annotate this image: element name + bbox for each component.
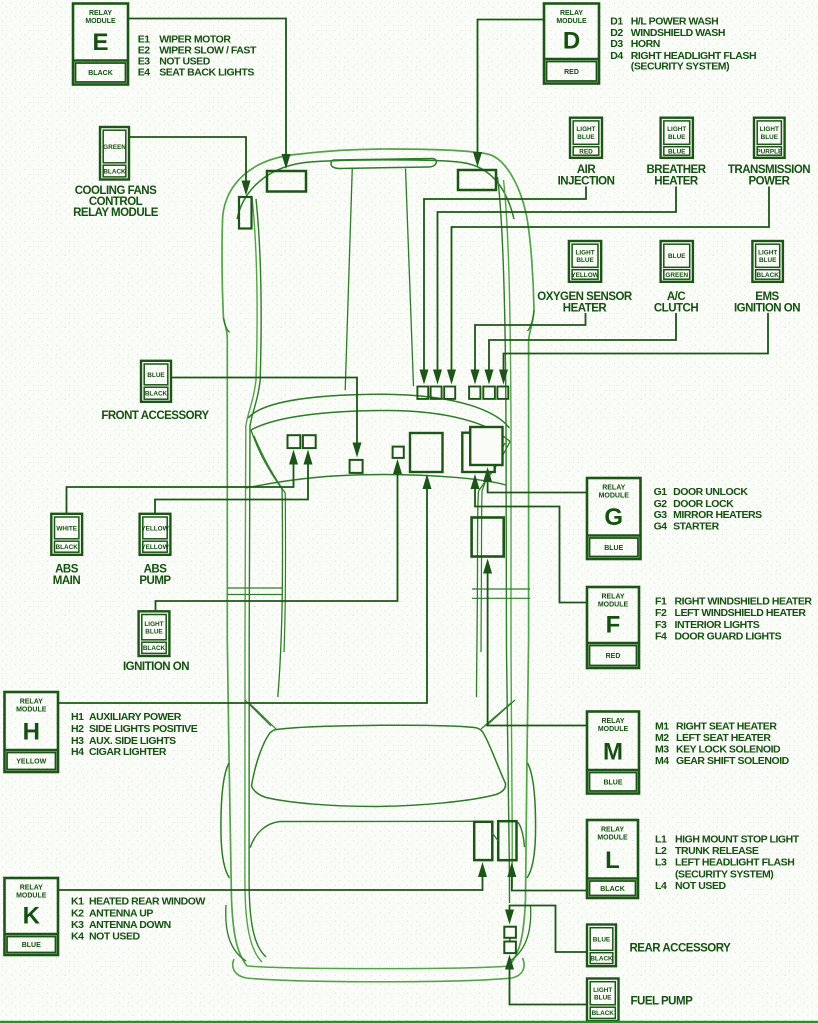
svg-text:RELAY: RELAY	[560, 10, 583, 17]
relay module L	[587, 820, 638, 898]
svg-text:G3: G3	[654, 509, 668, 521]
svg-text:F: F	[606, 612, 621, 639]
svg-text:MODULE: MODULE	[598, 602, 629, 609]
svg-text:E4: E4	[138, 67, 151, 79]
svg-text:IGNITION ON: IGNITION ON	[123, 661, 189, 673]
svg-text:RED: RED	[606, 653, 621, 660]
svg-text:RELAY MODULE: RELAY MODULE	[73, 207, 159, 219]
svg-text:H: H	[23, 719, 40, 746]
svg-text:LIGHT: LIGHT	[667, 126, 686, 133]
svg-text:BLACK: BLACK	[88, 70, 113, 77]
svg-text:BLUE: BLUE	[761, 134, 779, 141]
fuse abs main (white/black)	[51, 514, 82, 555]
svg-text:ABS: ABS	[55, 563, 79, 575]
label list E1-E4	[138, 34, 257, 79]
fuse ac clutch (blue/green)	[661, 241, 693, 282]
trunk right box	[498, 821, 516, 860]
label list H1-H4	[71, 711, 198, 758]
wire abs main	[67, 450, 299, 514]
label A/C CLUTCH	[654, 291, 698, 315]
svg-text:SEAT BACK LIGHTS: SEAT BACK LIGHTS	[159, 67, 254, 79]
svg-text:K2: K2	[71, 908, 84, 920]
svg-text:RED: RED	[579, 148, 593, 155]
label list D1-D4	[610, 16, 756, 73]
svg-text:BLUE: BLUE	[759, 257, 777, 264]
abs pair squares	[288, 435, 316, 448]
svg-text:HEATER: HEATER	[654, 176, 699, 188]
svg-text:HEATER: HEATER	[563, 303, 608, 315]
fuse air injection (light blue/red)	[570, 118, 602, 158]
svg-text:GREEN: GREEN	[103, 144, 126, 151]
svg-text:M1: M1	[655, 720, 669, 732]
svg-text:CIGAR LIGHTER: CIGAR LIGHTER	[89, 746, 167, 758]
svg-text:M4: M4	[655, 755, 669, 767]
svg-text:E: E	[92, 29, 108, 56]
svg-text:K1: K1	[71, 896, 84, 908]
svg-text:INJECTION: INJECTION	[558, 176, 615, 188]
svg-text:DOOR UNLOCK: DOOR UNLOCK	[673, 486, 748, 498]
svg-text:BLUE: BLUE	[576, 257, 594, 264]
label list G1-G4	[654, 486, 763, 532]
svg-text:LIGHT: LIGHT	[576, 126, 595, 133]
svg-text:FRONT ACCESSORY: FRONT ACCESSORY	[101, 410, 209, 422]
svg-text:RED: RED	[564, 69, 579, 76]
label FUEL PUMP	[631, 995, 694, 1007]
fuse ignition on (light blue/black)	[139, 611, 170, 656]
wire E to left cowl box	[128, 19, 291, 170]
fuse front accessory (blue/black)	[141, 361, 171, 402]
svg-text:PURPLE: PURPLE	[756, 148, 783, 155]
svg-text:HORN: HORN	[631, 38, 660, 50]
wire F module	[471, 474, 588, 603]
svg-text:RIGHT SEAT HEATER: RIGHT SEAT HEATER	[676, 720, 777, 732]
svg-text:BLUE: BLUE	[668, 134, 686, 141]
svg-text:LIGHT: LIGHT	[144, 621, 163, 628]
windshield-heat module square	[472, 518, 504, 557]
wire oxygen sensor	[471, 313, 586, 385]
label IGNITION ON	[123, 661, 189, 673]
label FRONT ACCESSORY	[101, 410, 209, 422]
svg-text:DOOR LOCK: DOOR LOCK	[673, 498, 734, 510]
wire ignition on	[156, 459, 403, 611]
svg-text:BLUE: BLUE	[593, 936, 611, 943]
svg-text:TRANSMISSION: TRANSMISSION	[728, 164, 810, 176]
svg-text:H2: H2	[71, 723, 84, 735]
svg-text:YELLOW: YELLOW	[141, 544, 169, 551]
svg-text:D1: D1	[610, 16, 623, 28]
svg-text:ANTENNA UP: ANTENNA UP	[89, 908, 153, 920]
svg-text:REAR ACCESSORY: REAR ACCESSORY	[630, 943, 732, 955]
car body outline	[221, 149, 536, 966]
svg-text:BLUE: BLUE	[594, 994, 612, 1001]
svg-text:POWER: POWER	[749, 176, 791, 188]
svg-text:BLUE: BLUE	[604, 545, 623, 552]
svg-text:AUXILIARY POWER: AUXILIARY POWER	[89, 711, 182, 723]
svg-text:F1: F1	[655, 596, 667, 608]
svg-text:MODULE: MODULE	[597, 835, 628, 842]
left fender box	[239, 197, 252, 229]
wire L module	[507, 862, 587, 891]
svg-text:BLACK: BLACK	[600, 886, 625, 893]
label REAR ACCESSORY	[630, 943, 732, 955]
svg-text:MODULE: MODULE	[85, 18, 116, 25]
wire breather heater	[433, 187, 676, 385]
svg-text:ANTENNA DOWN: ANTENNA DOWN	[89, 919, 171, 931]
relay module E	[73, 4, 128, 85]
wire front accessory	[171, 378, 362, 458]
svg-text:BLUE: BLUE	[145, 628, 163, 635]
svg-text:DOOR GUARD LIGHTS: DOOR GUARD LIGHTS	[675, 631, 782, 643]
svg-text:NOT USED: NOT USED	[89, 930, 141, 942]
rear small square bottom	[504, 942, 516, 954]
svg-text:L3: L3	[655, 857, 667, 869]
svg-text:WHITE: WHITE	[56, 525, 77, 532]
svg-text:H4: H4	[71, 746, 84, 758]
aux power module square	[410, 433, 443, 472]
svg-text:BLACK: BLACK	[143, 645, 166, 652]
svg-text:AIR: AIR	[577, 164, 597, 176]
svg-text:A/C: A/C	[667, 291, 686, 303]
svg-text:G4: G4	[654, 521, 668, 533]
svg-text:BLACK: BLACK	[592, 1010, 615, 1017]
svg-text:LIGHT: LIGHT	[575, 249, 594, 256]
svg-text:RELAY: RELAY	[89, 10, 112, 17]
svg-text:LEFT WINDSHIELD HEATER: LEFT WINDSHIELD HEATER	[675, 607, 807, 619]
label BREATHER HEATER	[646, 164, 706, 188]
relay module H	[5, 692, 59, 772]
svg-text:LEFT HEADLIGHT FLASH: LEFT HEADLIGHT FLASH	[675, 857, 794, 869]
fuse cooling fans (green/black)	[100, 127, 129, 180]
wire G module	[483, 467, 587, 493]
relay module G	[587, 478, 641, 559]
svg-text:BLACK: BLACK	[56, 544, 79, 551]
svg-text:ABS: ABS	[144, 563, 168, 575]
label COOLING FANS CONTROL RELAY MODULE	[73, 185, 159, 219]
svg-text:LIGHT: LIGHT	[593, 987, 612, 994]
svg-text:RELAY: RELAY	[602, 485, 625, 492]
fuse breather heater (light blue/blue)	[661, 118, 693, 158]
svg-text:L1: L1	[655, 834, 667, 846]
label list M1-M4	[655, 720, 790, 767]
svg-text:YELLOW: YELLOW	[141, 525, 169, 532]
label TRANSMISSION POWER	[728, 164, 810, 188]
svg-text:GEAR SHIFT SOLENOID: GEAR SHIFT SOLENOID	[676, 755, 790, 767]
svg-text:LIGHT: LIGHT	[758, 249, 777, 256]
svg-text:CLUTCH: CLUTCH	[654, 303, 698, 315]
svg-text:K: K	[23, 903, 41, 930]
svg-text:MODULE: MODULE	[16, 893, 47, 900]
svg-text:YELLOW: YELLOW	[16, 759, 46, 766]
svg-text:G2: G2	[654, 498, 668, 510]
label EMS IGNITION ON	[734, 291, 800, 315]
svg-text:BREATHER: BREATHER	[646, 164, 706, 176]
label ABS MAIN	[53, 563, 81, 587]
svg-text:BLACK: BLACK	[103, 168, 126, 175]
wire H module	[58, 474, 432, 703]
relay module D	[544, 4, 599, 84]
ignition-on square	[393, 447, 404, 458]
wire D to right cowl box	[473, 20, 544, 168]
svg-text:BLUE: BLUE	[668, 253, 686, 260]
svg-text:(SECURITY SYSTEM): (SECURITY SYSTEM)	[675, 869, 773, 881]
svg-text:M2: M2	[655, 732, 669, 744]
svg-text:MODULE: MODULE	[599, 493, 630, 500]
svg-text:PUMP: PUMP	[139, 575, 171, 587]
svg-text:BLACK: BLACK	[590, 955, 613, 962]
svg-text:BLUE: BLUE	[147, 372, 165, 379]
svg-text:H/L POWER WASH: H/L POWER WASH	[631, 16, 718, 28]
rear small square top	[504, 927, 516, 942]
right cowl box	[458, 170, 496, 190]
svg-text:D4: D4	[610, 50, 623, 62]
wire air injection	[420, 187, 587, 385]
svg-text:HEATED REAR WINDOW: HEATED REAR WINDOW	[89, 896, 205, 908]
svg-text:KEY LOCK SOLENOID: KEY LOCK SOLENOID	[676, 744, 781, 756]
svg-text:MIRROR HEATERS: MIRROR HEATERS	[673, 509, 762, 521]
wire rear accessory	[505, 906, 587, 953]
svg-text:IGNITION ON: IGNITION ON	[734, 303, 800, 315]
svg-text:(SECURITY SYSTEM): (SECURITY SYSTEM)	[631, 61, 729, 73]
door module squares overlapped	[462, 427, 502, 472]
fuse square row group2	[469, 387, 508, 399]
relay module K	[5, 878, 59, 955]
svg-text:MODULE: MODULE	[556, 18, 587, 25]
page bottom border	[0, 1021, 818, 1023]
wire abs pump	[155, 450, 313, 514]
svg-text:MODULE: MODULE	[16, 707, 47, 714]
wire ems ignition	[499, 313, 768, 385]
svg-text:H3: H3	[71, 735, 84, 747]
svg-text:HIGH MOUNT STOP LIGHT: HIGH MOUNT STOP LIGHT	[675, 834, 800, 846]
car rear window	[252, 725, 506, 806]
front accessory square	[350, 460, 363, 473]
svg-text:L: L	[605, 847, 620, 874]
wire M module	[483, 559, 587, 726]
svg-text:D: D	[563, 28, 580, 55]
fuse oxygen sensor (light blue/yellow)	[569, 241, 601, 282]
svg-text:RELAY: RELAY	[601, 718, 624, 725]
fuse transmission power (light blue/purple)	[754, 118, 785, 158]
svg-text:WINDSHIELD WASH: WINDSHIELD WASH	[631, 27, 725, 39]
svg-text:M3: M3	[655, 744, 669, 756]
label list L1-L4	[655, 834, 800, 893]
car trunk front line	[250, 821, 524, 847]
relay module F	[587, 587, 639, 668]
svg-text:L4: L4	[655, 880, 667, 892]
svg-text:BLACK: BLACK	[756, 272, 779, 279]
svg-text:RELAY: RELAY	[601, 594, 624, 601]
svg-text:BLUE: BLUE	[22, 942, 41, 949]
fuse ems ignition on (light blue/black)	[752, 241, 783, 282]
wire fuel pump	[505, 955, 587, 1005]
svg-text:TRUNK RELEASE: TRUNK RELEASE	[675, 845, 759, 857]
fuse square row group1	[417, 387, 455, 399]
svg-text:GREEN: GREEN	[665, 272, 688, 279]
fuse fuel pump (light blue/black)	[587, 979, 619, 1022]
svg-text:STARTER: STARTER	[673, 521, 720, 533]
car rear bumper	[233, 958, 524, 982]
svg-text:BLUE: BLUE	[668, 148, 686, 155]
label ABS PUMP	[139, 563, 171, 587]
svg-text:LIGHT: LIGHT	[760, 126, 779, 133]
svg-text:OXYGEN SENSOR: OXYGEN SENSOR	[537, 291, 633, 303]
svg-text:YELLOW: YELLOW	[571, 272, 599, 279]
svg-text:NOT USED: NOT USED	[675, 880, 727, 892]
svg-text:F3: F3	[655, 619, 667, 631]
svg-text:BLUE: BLUE	[577, 134, 595, 141]
svg-text:EMS: EMS	[755, 291, 779, 303]
label list K1-K4	[71, 896, 205, 943]
svg-text:H1: H1	[71, 711, 84, 723]
left cowl box	[267, 171, 306, 192]
svg-text:G1: G1	[654, 486, 668, 498]
svg-text:RELAY: RELAY	[601, 827, 624, 834]
svg-text:L2: L2	[655, 845, 667, 857]
svg-text:K3: K3	[71, 919, 84, 931]
svg-text:F2: F2	[655, 607, 667, 619]
label OXYGEN SENSOR HEATER	[537, 291, 633, 315]
wire K module	[58, 862, 487, 890]
wire ac clutch	[485, 313, 677, 385]
svg-text:AUX. SIDE LIGHTS: AUX. SIDE LIGHTS	[89, 735, 176, 747]
svg-text:INTERIOR LIGHTS: INTERIOR LIGHTS	[675, 619, 760, 631]
trunk boxes link	[492, 833, 498, 841]
wire cooling fans to fender box	[129, 137, 251, 196]
svg-text:FUEL PUMP: FUEL PUMP	[631, 995, 694, 1007]
svg-text:LEFT SEAT HEATER: LEFT SEAT HEATER	[676, 732, 771, 744]
relay module M	[587, 712, 639, 794]
trunk left box	[474, 822, 492, 860]
svg-text:RELAY: RELAY	[20, 885, 43, 892]
svg-text:K4: K4	[71, 930, 84, 942]
label list F1-F4	[655, 596, 812, 643]
svg-text:BLUE: BLUE	[603, 779, 622, 786]
svg-text:MAIN: MAIN	[53, 575, 81, 587]
svg-text:SIDE LIGHTS POSITIVE: SIDE LIGHTS POSITIVE	[89, 723, 198, 735]
svg-text:RIGHT WINDSHIELD HEATER: RIGHT WINDSHIELD HEATER	[675, 596, 813, 608]
svg-text:M: M	[603, 739, 623, 766]
svg-text:RELAY: RELAY	[20, 699, 43, 706]
wire transmission power	[447, 187, 769, 385]
svg-text:D3: D3	[610, 38, 623, 50]
svg-text:MODULE: MODULE	[598, 726, 629, 733]
svg-text:G: G	[604, 504, 623, 531]
svg-text:BLACK: BLACK	[145, 391, 168, 398]
fuse abs pump (yellow/yellow)	[140, 514, 171, 555]
svg-text:D2: D2	[610, 27, 623, 39]
label AIR INJECTION	[558, 164, 615, 188]
svg-text:F4: F4	[655, 631, 667, 643]
fuse rear accessory (blue/black)	[587, 925, 616, 967]
